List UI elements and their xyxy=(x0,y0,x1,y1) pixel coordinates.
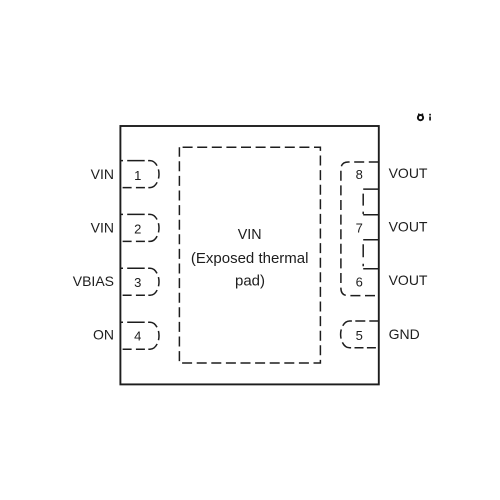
svg-text:VIN: VIN xyxy=(238,227,262,243)
svg-text:4: 4 xyxy=(134,329,141,344)
pin 4 pad xyxy=(120,322,159,349)
svg-text:2: 2 xyxy=(134,221,141,236)
merged pad for pins 8-7-6 xyxy=(341,162,379,296)
IC package body outline U1 xyxy=(120,126,378,384)
svg-text:GND: GND xyxy=(389,326,420,342)
svg-text:VOUT: VOUT xyxy=(389,272,428,288)
svg-text:pad): pad) xyxy=(235,272,265,289)
svg-text:1: 1 xyxy=(134,168,141,183)
svg-text:VIN: VIN xyxy=(91,219,114,235)
pin 5 pad xyxy=(341,321,379,348)
exposed thermal pad (dashed) xyxy=(179,147,320,363)
svg-text:VIN: VIN xyxy=(91,166,114,182)
svg-text:(Exposed thermal: (Exposed thermal xyxy=(191,250,309,267)
stray mark glyph (bar with dot) top right xyxy=(429,114,431,121)
svg-text:5: 5 xyxy=(356,328,363,343)
svg-text:7: 7 xyxy=(356,221,363,236)
pin 3 pad xyxy=(120,268,159,295)
svg-text:8: 8 xyxy=(356,167,363,182)
svg-text:VBIAS: VBIAS xyxy=(73,273,114,289)
svg-text:ON: ON xyxy=(93,327,114,343)
notch between pin 8 and pin 7 xyxy=(363,189,379,215)
stray mark glyph (ring with ticks) top right xyxy=(418,114,423,121)
notch between pin 7 and pin 6 xyxy=(363,240,379,269)
svg-text:3: 3 xyxy=(134,275,141,290)
svg-text:VOUT: VOUT xyxy=(389,165,428,181)
svg-text:6: 6 xyxy=(356,274,363,289)
pin 1 pad xyxy=(120,161,159,188)
pin 2 pad xyxy=(120,214,159,241)
svg-text:VOUT: VOUT xyxy=(389,218,428,234)
